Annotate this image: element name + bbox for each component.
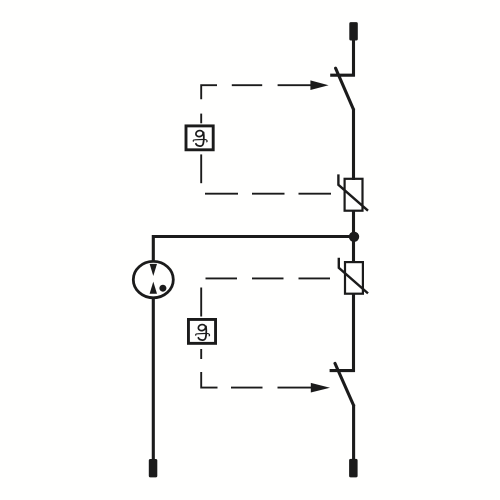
gas-filled indicator dot — [159, 285, 166, 292]
wire (switch to varistor 1) — [352, 109, 355, 181]
dashed link: sensing line to MOV1, dash a — [205, 193, 238, 195]
dashed link: corner above theta-1 (L piece) — [201, 85, 217, 99]
varistor MOV2 body — [345, 262, 363, 294]
thermal sensor box theta-1 — [186, 126, 213, 150]
wire (node down to varistor 2) — [352, 237, 355, 263]
thermal sensor box theta-2 — [188, 319, 215, 343]
terminal (top, line side) — [349, 22, 358, 40]
dashed link: sensing line to MOV2, dash a — [206, 277, 238, 279]
dashed link: sensing line to MOV1, dash b — [252, 193, 285, 195]
spark gap GDT ring — [133, 261, 173, 297]
thermal disconnector blade (bottom switch) — [335, 363, 354, 405]
wire (spark gap down to bottom left terminal) — [152, 299, 155, 460]
dashed link: top horizontal dash b (arrow shaft) — [278, 84, 312, 86]
dashed link: sensing line to MOV2, dash b — [252, 277, 284, 279]
theta-2 glyph (mirrored script theta) — [196, 324, 210, 340]
varistor MOV1 body — [345, 179, 363, 211]
varistor MOV2 diagonal stroke — [339, 258, 368, 294]
wire (varistor 1 to node) — [352, 210, 355, 237]
terminal (bottom left) — [149, 459, 158, 477]
wire (varistor 2 down to switch 2 contact, L-turn left) — [330, 294, 355, 372]
dashed link: dash below theta-2 — [200, 349, 202, 359]
spark gap electrode (lower triangle) — [150, 282, 157, 294]
wire (main horizontal from node to left branch, corner down) — [153, 237, 354, 261]
arrow head (points at bottom switch) — [311, 383, 330, 393]
thermal disconnector blade (top switch) — [336, 68, 354, 109]
dashed link: bottom horizontal dash b (arrow shaft) — [278, 387, 312, 389]
terminal (bottom right) — [349, 459, 358, 478]
dashed link: sensing line to MOV2, dash c — [299, 277, 331, 279]
node (junction dot) — [349, 232, 359, 242]
dashed link: dash above theta-1 — [200, 114, 202, 124]
arrow head (points at top switch) — [310, 80, 328, 90]
wire (top terminal down to switch contact, L-turn left) — [330, 40, 355, 77]
dashed link: sensing line to MOV1, dash c — [299, 193, 332, 195]
dashed link: dash below theta-1 — [200, 154, 202, 183]
dashed link: corner below theta-2 (L piece) — [201, 372, 217, 388]
dashed link: bottom horizontal dash a — [231, 387, 263, 389]
varistor MOV1 diagonal stroke — [338, 174, 368, 210]
spark gap electrode (upper triangle) — [150, 264, 157, 276]
dashed link: top horizontal dash a — [232, 84, 262, 86]
wire (switch 2 to bottom terminal) — [352, 405, 355, 460]
dashed link: dash above theta-2 — [200, 288, 202, 317]
theta-1 glyph (mirrored script theta) — [193, 130, 207, 146]
